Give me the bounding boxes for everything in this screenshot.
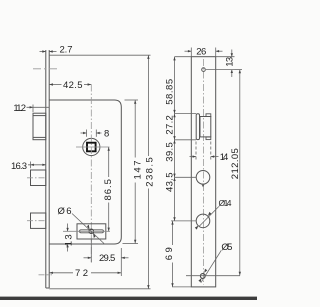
spindle hole circle (83, 138, 100, 155)
dimension 13 (left view) (67, 224, 69, 252)
svg-text:212.05: 212.05 (230, 148, 241, 179)
label 27.2 (164, 115, 175, 134)
chain arrowheads (171, 57, 175, 287)
svg-text:42.5: 42.5 (63, 80, 83, 91)
left dimension chain line (173, 57, 175, 287)
svg-text:58.85: 58.85 (164, 79, 175, 105)
faceplate front outline (191, 57, 215, 287)
spindle vertical centerline (90, 85, 92, 263)
spindle horizontal centerline (76, 146, 110, 148)
svg-text:8: 8 (104, 129, 109, 140)
label 69 (164, 247, 175, 260)
svg-text:Ø6: Ø6 (58, 206, 72, 217)
dimension 212.05 (186, 70, 242, 276)
bottom screw hole Ø5 (200, 274, 205, 279)
extension lines right view left side (171, 57, 196, 287)
dimension 16.3 (28, 164, 46, 166)
dimension 42.5 (49, 84, 91, 86)
latch head tab bottom (206, 137, 211, 140)
svg-text:13: 13 (224, 57, 235, 67)
leader Ø5 (201, 250, 222, 282)
svg-text:11.2: 11.2 (13, 103, 26, 114)
dimension 13 (right view) (206, 50, 235, 78)
bottom border line (0, 297, 257, 300)
svg-text:43.5: 43.5 (164, 172, 175, 192)
cylinder slot (80, 230, 104, 233)
svg-text:69: 69 (164, 247, 175, 260)
latch head tab top (206, 114, 211, 117)
label 39.5 (164, 142, 175, 162)
svg-text:238.5: 238.5 (145, 157, 156, 187)
svg-text:26: 26 (196, 46, 206, 57)
svg-text:39.5: 39.5 (164, 142, 175, 162)
lock body (side view) (49, 100, 121, 244)
circle upper notch (202, 184, 204, 186)
dimension 26 (185, 48, 223, 57)
spindle square 8mm (87, 143, 96, 152)
dimension 14 (190, 142, 219, 161)
dimension 72 (49, 272, 121, 274)
deadbolt lower (side view) (31, 213, 46, 228)
svg-text:16.3: 16.3 (11, 161, 27, 172)
svg-text:Ø14: Ø14 (219, 198, 232, 208)
bottom screw centerline dash (39, 274, 53, 276)
dimension 11.2 (27, 106, 50, 108)
dimension 2.7 (40, 51, 57, 53)
label 58.85 (164, 79, 175, 105)
svg-text:27.2: 27.2 (164, 115, 175, 134)
label Ø6 with leader (72, 214, 104, 244)
dimension 8 (81, 130, 102, 137)
faceplate top extension line (49, 54, 150, 56)
svg-text:72: 72 (75, 268, 88, 279)
svg-text:13: 13 (64, 234, 75, 246)
latch opening: bolt strip (196, 114, 199, 140)
dimension 29.5 (84, 239, 129, 276)
latch bolt (side view) (33, 113, 46, 140)
cylinder cutout rectangle (77, 224, 106, 239)
svg-text:29.5: 29.5 (99, 253, 115, 264)
latch head (200, 117, 211, 137)
leader Ø14 (199, 207, 219, 227)
deadbolt lower centerline (27, 220, 46, 222)
top screw hole (202, 68, 206, 72)
hole circle lower Ø14 (196, 214, 210, 228)
svg-text:14: 14 (220, 152, 229, 163)
svg-text:2.7: 2.7 (60, 45, 73, 56)
svg-text:147: 147 (132, 161, 143, 180)
deadbolt upper centerline (27, 177, 46, 179)
svg-text:Ø5: Ø5 (221, 242, 232, 253)
faceplate vertical centerline (203, 59, 205, 285)
dimension 147 (123, 100, 139, 244)
dimension 86.5 (108, 147, 110, 231)
label 43.5 (164, 172, 175, 192)
cylinder slot centerline (63, 230, 110, 232)
cylinder pin circle Ø6 (89, 229, 94, 234)
svg-text:86.5: 86.5 (103, 179, 114, 201)
faceplate (side view) (46, 50, 49, 288)
deadbolt upper (side view) (31, 170, 46, 186)
top screw centerline dash (33, 68, 57, 70)
hole circle upper (196, 171, 210, 185)
dimension 238.5 (49, 55, 150, 289)
